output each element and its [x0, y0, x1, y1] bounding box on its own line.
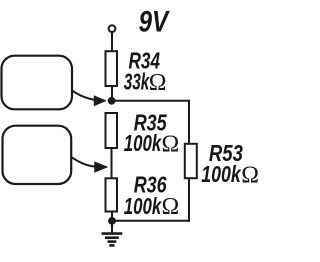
wire R53 down to bottom rail	[188, 178, 190, 222]
node A junction dot	[108, 97, 116, 105]
wire R34 to node A	[111, 86, 113, 101]
resistor R34	[106, 51, 118, 86]
resistor R36	[106, 178, 118, 211]
resistor R35	[106, 113, 118, 148]
wire right branch down to R53	[188, 100, 190, 145]
wire bottom rail	[112, 220, 190, 222]
svg-text:100k: 100k	[201, 161, 242, 187]
callout box 2	[3, 126, 72, 184]
terminal circle 9V	[109, 25, 116, 32]
ground	[102, 224, 123, 245]
svg-text:33k: 33k	[124, 69, 151, 95]
node B junction dot	[108, 217, 116, 225]
wire R36 to ground node	[111, 212, 113, 222]
svg-text:Ω: Ω	[241, 162, 259, 188]
svg-text:100k: 100k	[124, 193, 163, 219]
svg-text:9V: 9V	[139, 6, 170, 39]
wire R35 to R36	[111, 148, 113, 179]
resistor R53	[185, 144, 197, 178]
svg-text:Ω: Ω	[149, 70, 167, 96]
value 100kΩ of R36	[124, 193, 179, 220]
value 100kΩ of R53	[201, 161, 259, 188]
wire 9V terminal to R34	[111, 33, 113, 53]
arrow from box 1 to node A	[72, 91, 95, 100]
svg-text:Ω: Ω	[162, 194, 180, 220]
wire node A to right branch	[112, 100, 188, 102]
svg-text:Ω: Ω	[162, 131, 180, 157]
value 100kΩ of R35	[124, 130, 179, 157]
arrow from box 2 to R35-R36 wire	[71, 157, 95, 167]
value 33kΩ	[124, 69, 167, 96]
callout box 1	[2, 56, 73, 110]
svg-text:100k: 100k	[124, 130, 163, 156]
